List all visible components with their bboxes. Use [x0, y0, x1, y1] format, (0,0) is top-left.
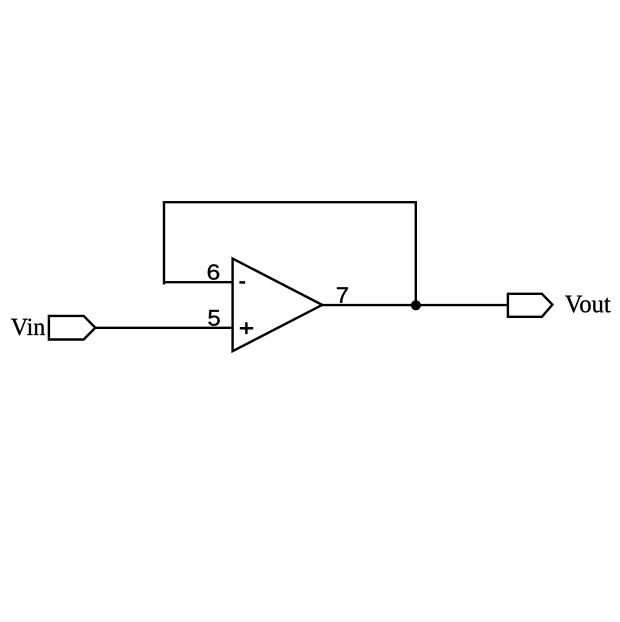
- wire: feedback left vertical segment: [163, 202, 165, 283]
- pin number 6 label (inverting input): [208, 264, 219, 279]
- port connector: Vin input flag: [49, 316, 95, 340]
- wire: non-inverting input (pin 5) from Vin port to op-amp: [95, 327, 233, 329]
- pin number 7 label (output): [337, 287, 348, 302]
- wire: feedback right vertical segment down to output junction: [415, 202, 417, 305]
- junction: output node dot: [411, 300, 421, 310]
- port connector: Vout output flag: [508, 294, 553, 317]
- wire: feedback top horizontal segment: [164, 201, 416, 203]
- op-amp inverting input minus symbol: [239, 281, 245, 284]
- op-amp U1 triangle body: [233, 259, 323, 352]
- pin number 5 label (non-inverting input): [208, 310, 219, 326]
- wire: output segment from junction to Vout port: [416, 304, 508, 306]
- wire: inverting input (pin 6) horizontal segment: [164, 281, 233, 283]
- net label Vin: [11, 319, 45, 336]
- op-amp non-inverting input plus symbol: [240, 322, 253, 334]
- net label Vout: [565, 296, 611, 313]
- wire: output segment from op-amp apex to junction: [321, 304, 416, 306]
